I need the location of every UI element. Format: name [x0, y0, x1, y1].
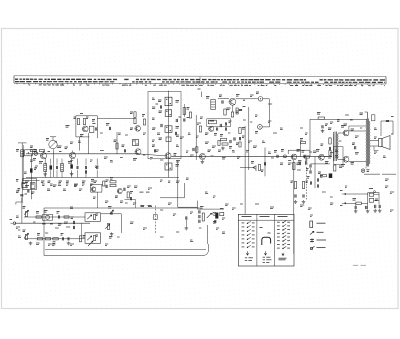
frequency scale strip [14, 76, 386, 86]
wire out collector top [349, 126, 366, 131]
box input network [43, 211, 53, 221]
wire vol drop x177 [178, 160, 198, 207]
transistor TS3 afc [80, 126, 94, 136]
transistor TS7 osc [227, 95, 240, 113]
wire front-end bottom bus [26, 177, 179, 179]
wire left hook [16, 198, 22, 205]
potentiometer arrow ext [88, 241, 93, 246]
capacitor C32 [310, 168, 311, 174]
resistor R37 [127, 192, 133, 198]
legend item resistor [310, 221, 326, 228]
wire dashed link [154, 206, 158, 234]
wire if spine [168, 91, 170, 178]
transistor TS8 conv [205, 126, 214, 134]
legend item switch [310, 246, 325, 249]
terminal battery plus [340, 191, 346, 195]
wire psu top [345, 193, 368, 195]
wire v x300 [288, 142, 310, 157]
coil L2 antenna [25, 150, 37, 156]
box pot2 [85, 233, 101, 244]
resistor R22 [293, 163, 300, 170]
capacitor C23 [321, 124, 328, 133]
resistor R12 [183, 108, 189, 115]
wire osc top [218, 98, 229, 100]
transistor TS11 drv [316, 150, 329, 164]
capacitor C33 [199, 210, 200, 213]
box audio board [44, 208, 209, 256]
capacitor C15 [214, 124, 221, 135]
switch bank S1c contacts [277, 221, 290, 260]
resistor R31 [200, 207, 204, 222]
electrolytic C31 [329, 174, 332, 178]
capacitor C43 [71, 217, 75, 229]
capacitor C2 [18, 189, 29, 193]
wire v x248 [248, 107, 250, 170]
resistor R11 [142, 115, 146, 126]
resistor R3 [30, 146, 37, 152]
wire out bot link [338, 158, 343, 160]
capacitor C50 [379, 205, 380, 208]
resistor R48 [353, 199, 362, 205]
wire v x197 [197, 201, 199, 210]
resistor R30 [334, 165, 336, 171]
resistor R36 [110, 184, 116, 186]
cluster det filter [218, 135, 239, 150]
label ra rf [139, 192, 151, 205]
wire to spk2 [370, 146, 379, 151]
capacitor C18 [261, 162, 266, 171]
fuse F1 [369, 189, 376, 197]
trimmer C4 [33, 152, 38, 160]
transistor TS15 pre1 [91, 180, 96, 192]
trimmer C46 [108, 207, 114, 215]
capacitor C37 [215, 220, 216, 223]
capacitor C22 [306, 157, 307, 165]
ground gnd psu4 [378, 209, 382, 212]
resistor R25 [329, 137, 331, 156]
capacitor C24 [329, 147, 330, 150]
capacitor C29 [306, 164, 311, 170]
capacitor C52 [152, 145, 156, 152]
resistor R1 block [22, 183, 27, 188]
ground gnd pot [110, 232, 114, 235]
wire out-stage link [324, 156, 332, 158]
wire front-end stubs [45, 159, 97, 178]
capacitor C35 [199, 220, 200, 223]
capacitor C38 [186, 216, 187, 226]
wire jack link2 [262, 126, 269, 128]
wire mid ctl [101, 214, 121, 233]
resistor R18 [239, 128, 245, 134]
wire ot bottom [365, 167, 367, 169]
wire left cross [22, 180, 39, 182]
wire psu bot2 [362, 202, 368, 204]
resistor R39 [36, 212, 42, 219]
box converter [207, 119, 231, 127]
capacitor C7c [82, 166, 87, 183]
resistor R26 [300, 139, 306, 144]
if transformer S1 [133, 140, 139, 146]
wire out collector bot [349, 161, 366, 163]
coil L3 [41, 164, 47, 183]
resistor R44 [79, 236, 85, 242]
resistor R2 block [31, 183, 36, 189]
capacitor C44 [29, 234, 71, 245]
resistor R17 [199, 126, 201, 132]
transistor TS2 [68, 151, 76, 164]
ground gnd psu1 [354, 210, 358, 213]
wire out top link [338, 132, 343, 134]
ground gnd det [201, 160, 205, 163]
capacitor C40 [124, 188, 125, 191]
resistor R43 [53, 238, 59, 244]
resistor R15 [231, 111, 238, 117]
capacitor C19 [274, 151, 278, 158]
capacitor C10 [156, 104, 163, 127]
battery BT1 [369, 199, 378, 203]
switch bank S1b jumper [260, 228, 272, 263]
resistor R14 [224, 108, 238, 115]
transistor TS10 af1 [291, 150, 300, 160]
resistor R27 [291, 181, 297, 189]
label component values [16, 95, 394, 246]
capacitor C26 [303, 194, 304, 197]
wire preamp link [124, 200, 135, 208]
coil L5 [59, 164, 64, 183]
potentiometer R47 [105, 224, 112, 239]
wire antenna top bar [18, 142, 27, 144]
capacitor C9 [106, 124, 111, 131]
resistor R23 [317, 113, 325, 120]
transistor TS16 pre2 [115, 189, 122, 198]
electrolytic C7 [66, 161, 73, 183]
capacitor C42 [57, 212, 70, 219]
electrolytic C6 [48, 166, 52, 183]
capacitor C11 [175, 117, 181, 135]
wire jack column [269, 99, 271, 127]
wire if row link [137, 154, 165, 156]
transistor TS12 out1 [341, 126, 354, 136]
ground gnd psu2 [366, 210, 370, 213]
capacitor C45 [68, 237, 69, 240]
transformer T1 driver [328, 128, 338, 161]
wire v x184 [160, 183, 184, 198]
capacitor C28 [317, 176, 323, 188]
label sa [141, 206, 153, 208]
wire preamp v [96, 192, 98, 208]
diode D1 [251, 162, 256, 172]
wire v x315 [314, 157, 316, 189]
capacitor C14 [239, 107, 246, 111]
wire input up branch [21, 202, 23, 223]
label bfr [66, 114, 96, 128]
tuning capacitor C5 gang [46, 137, 68, 149]
legend item pot [310, 231, 324, 234]
label osc section [48, 151, 62, 153]
ground gnd fb2 [302, 200, 306, 203]
capacitor C20 [302, 151, 306, 158]
potentiometer R46 treble [87, 235, 98, 241]
ground gnd fb1 [294, 200, 298, 203]
resistor R16 block [208, 120, 216, 124]
electrolytic C1 [30, 168, 37, 172]
capacitor C8 [93, 124, 97, 131]
label part number [353, 264, 366, 266]
wire psu verticals [368, 193, 379, 210]
resistor R4 [40, 150, 45, 152]
capacitor C39 [106, 185, 107, 188]
capacitor C17 [239, 136, 244, 140]
label 75 top [344, 124, 348, 126]
resistor R6 [114, 140, 119, 149]
wire det drop x293 [294, 160, 307, 254]
transistor TS4 [130, 126, 141, 132]
wire driver drop [207, 225, 209, 244]
wire det drop x265 [264, 148, 266, 177]
wire input line [15, 222, 90, 224]
wire tuning cap drop [53, 149, 55, 177]
wire psu bot [345, 202, 356, 204]
wire jack link [263, 98, 270, 100]
resistor R24 [321, 138, 332, 146]
transistor TS1 [39, 151, 47, 164]
box bias network [334, 147, 344, 165]
wire top-right feed [310, 118, 367, 120]
wire antenna rod [22, 143, 23, 203]
wire audio row [171, 155, 332, 157]
wire to spk [370, 140, 379, 142]
resistor R41 [37, 234, 43, 240]
wire mini-stage left [76, 116, 89, 151]
if transformer S4 [165, 126, 179, 133]
resistor R11b [159, 137, 172, 142]
resistor R29 [318, 172, 327, 177]
speaker LS1 [379, 134, 394, 150]
capacitor C13 [219, 95, 223, 104]
coil L1 antenna [16, 150, 24, 157]
capacitor C6b [53, 166, 58, 187]
wire mini-stage top [76, 116, 98, 138]
wire v x88 [88, 133, 90, 154]
if transformer S3 [159, 110, 172, 117]
resistor R8 [74, 117, 80, 125]
potentiometer R38 [23, 207, 29, 217]
transistor TS5 mixer [133, 149, 141, 160]
resistor R34 [103, 180, 109, 186]
wire v x81 [81, 223, 83, 236]
potentiometer R40 [23, 230, 29, 240]
transistor TS13 out2 [341, 156, 354, 166]
capacitor C30 [352, 143, 356, 149]
if transformer S2 [158, 97, 179, 106]
transistor TS6 if2 [165, 153, 177, 159]
jack J3 [281, 150, 286, 158]
jack J2 bottom [255, 125, 262, 134]
wire ot top [381, 117, 394, 137]
resistor R21 [304, 156, 309, 158]
coil L8 osc [206, 97, 215, 110]
wire det link [240, 167, 255, 169]
capacitor C47 [355, 203, 356, 209]
capacitor C7b [74, 166, 78, 187]
capacitor C21 [299, 162, 300, 165]
resistor R42 [45, 238, 51, 240]
capacitor C16 [225, 121, 231, 131]
wire v x117 [116, 132, 118, 154]
resistor R35 [110, 178, 116, 183]
wire drv row [198, 208, 224, 210]
legend item trimmer [310, 238, 326, 242]
resistor R10b [130, 112, 136, 124]
capacitor C3 [20, 194, 27, 196]
wire v x196 [195, 115, 197, 160]
capacitor C7d [94, 166, 98, 183]
resistor R7 block [16, 179, 37, 194]
wire antenna col2 [30, 154, 32, 200]
resistor R20 [258, 165, 260, 171]
jack J1 top [256, 92, 263, 101]
ground gnd drv [185, 227, 189, 230]
wire audio bus bottom [45, 248, 206, 250]
capacitor C12 [184, 104, 189, 122]
capacitor C49 [375, 205, 376, 209]
capacitor C27 [307, 177, 312, 185]
wire agc stub [198, 89, 202, 97]
transistor TS9 det [193, 147, 214, 160]
capacitor C48 [366, 206, 367, 209]
wire out mid [310, 163, 330, 165]
resistor R13 [189, 112, 191, 118]
electrolytic C36 [213, 213, 218, 223]
wire mid row [24, 216, 85, 218]
switch table frame [238, 214, 294, 266]
transformer T2 output [360, 112, 375, 167]
resistor R33 block [220, 209, 224, 216]
if transformer S6 [165, 163, 179, 170]
wire front-end row [26, 153, 137, 155]
wire shield box [148, 92, 181, 159]
transistor TS14 pre [213, 212, 216, 215]
capacitor C51 [122, 145, 126, 152]
box preamp module [91, 185, 102, 193]
switch bank S1a contacts [242, 221, 255, 260]
terminal chassis [361, 169, 369, 172]
box pot1 [85, 213, 101, 222]
capacitor C25 [295, 194, 296, 197]
wire osc out [236, 98, 258, 100]
wire tone row [24, 238, 85, 240]
terminal battery minus [340, 202, 346, 205]
wire mini-stage out [97, 118, 134, 120]
label footnote [364, 173, 396, 175]
potentiometer R32 arrow [207, 213, 212, 218]
wire v x310 [309, 119, 311, 156]
ground gnd psu3 [373, 209, 377, 212]
resistor R28 [302, 181, 308, 189]
capacitor C41 [130, 197, 131, 200]
resistor R19 [239, 142, 241, 147]
terminal input socket [10, 220, 16, 225]
wire v x245 [244, 126, 246, 214]
capacitor C34 [199, 215, 200, 218]
resistor R9 [83, 117, 88, 125]
potentiometer R45 bass [87, 214, 98, 220]
